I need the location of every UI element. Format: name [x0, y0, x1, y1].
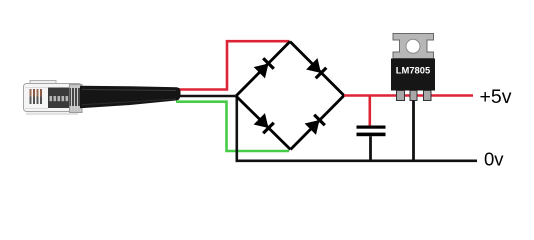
diode D1 (bridge left-top edge)	[236, 42, 290, 97]
wire regulator ground to 0v rail	[412, 101, 415, 161]
diode D4 (bridge bottom-right edge)	[291, 96, 345, 150]
wire red AC input (cable to bridge top)	[174, 41, 290, 89]
wire black cable to bridge left node	[174, 95, 236, 97]
svg-text:+5v: +5v	[480, 86, 512, 108]
diode D2 (bridge top-right edge)	[290, 42, 344, 96]
connector J1 RJ11 plug	[24, 81, 83, 116]
capacitor C1	[357, 96, 386, 161]
wire green AC input (cable to bridge bottom)	[176, 102, 289, 151]
svg-text:LM7805: LM7805	[396, 64, 430, 75]
cable	[80, 86, 181, 109]
wire 0v rail from bridge left node	[237, 96, 477, 161]
wire +5v rail (bridge right node to output)	[344, 94, 473, 97]
diode D3 (bridge left-bottom edge)	[236, 96, 291, 150]
svg-text:0v: 0v	[484, 149, 504, 170]
regulator U1 LM7805 (TO-220)	[391, 34, 435, 101]
